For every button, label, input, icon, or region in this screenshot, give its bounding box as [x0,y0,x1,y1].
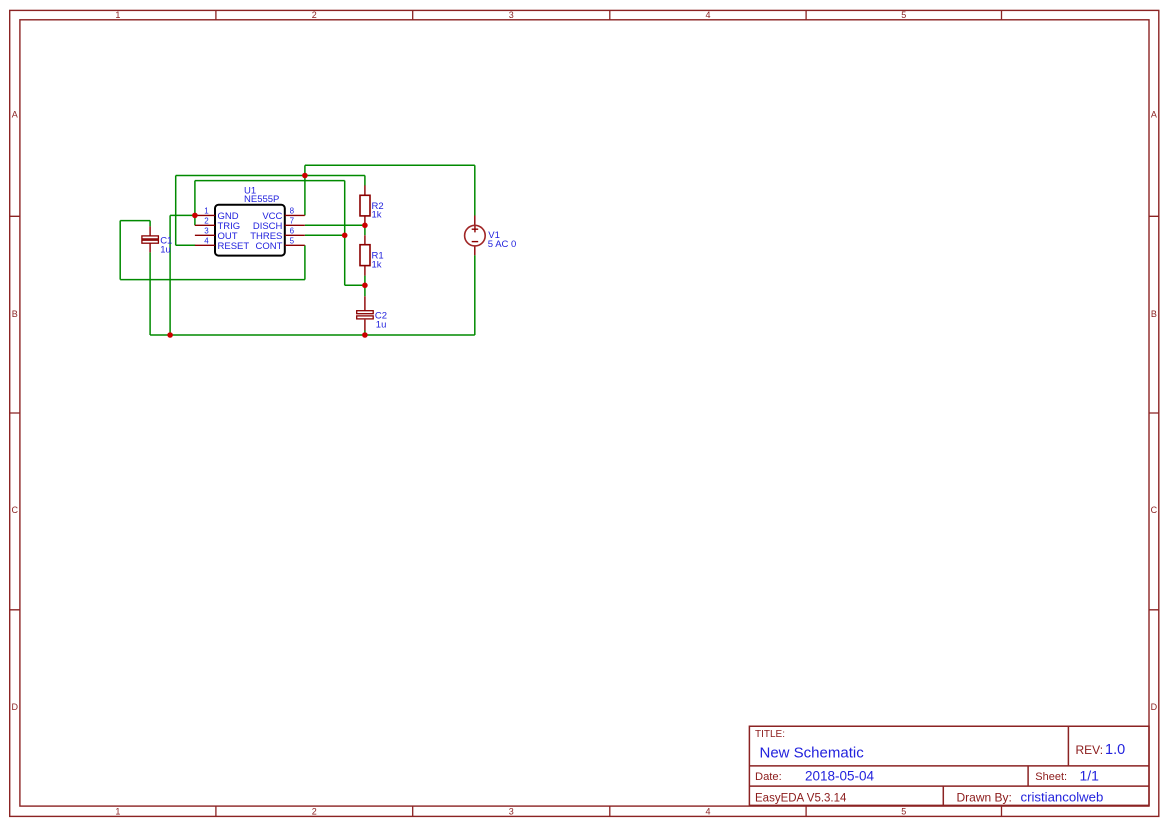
op-amp U1 NE555P body [215,185,285,255]
svg-text:1u: 1u [376,319,387,330]
svg-text:5: 5 [901,10,906,20]
svg-text:C: C [1151,505,1158,515]
wire net VCC top horizontal [305,164,475,166]
svg-text:1/1: 1/1 [1080,767,1100,783]
wire to R1 bottom junction [345,284,365,286]
svg-text:2: 2 [204,216,209,225]
wire C1 left vertical [119,221,121,280]
svg-text:D: D [1151,702,1158,712]
svg-text:4: 4 [705,10,710,20]
U1 pin 1 GND [195,207,239,222]
svg-text:B: B [12,309,18,319]
svg-text:NE555P: NE555P [244,194,279,205]
wire RESET vertical [175,176,177,246]
U1 pin 5 CONT [255,236,304,251]
U1 pin 2 TRIG [195,216,240,231]
svg-text:EasyEDA V5.3.14: EasyEDA V5.3.14 [755,793,847,805]
U1 pin 4 RESET [195,236,249,251]
svg-text:2018-05-04: 2018-05-04 [805,769,875,784]
svg-text:A: A [12,110,18,120]
U1 pin 7 DISCH [253,216,305,231]
wire THRES vertical x=344.7 [344,181,346,286]
svg-text:RESET: RESET [218,241,250,252]
svg-text:1k: 1k [372,210,382,221]
svg-text:6: 6 [290,226,295,235]
svg-text:1u: 1u [160,244,171,255]
svg-text:5: 5 [901,806,906,816]
svg-text:1k: 1k [372,259,382,270]
wire net VCC horizontal y=175.5 [176,175,365,177]
U1 pin 6 THRES [250,226,305,241]
wire net VCC vertical to pin 8 [304,165,306,215]
svg-text:A: A [1151,110,1157,120]
svg-text:5 AC 0: 5 AC 0 [488,239,517,250]
svg-text:Drawn By:: Drawn By: [957,790,1012,804]
wire THRES horizontal to pin 6 [305,234,345,236]
svg-text:C: C [12,505,19,515]
junction dot ground rail C2 [362,332,368,338]
svg-text:5: 5 [290,236,295,245]
junction dot THRES node [342,233,348,239]
wire C1 top horizontal [120,220,150,222]
svg-text:CONT: CONT [255,241,282,252]
svg-text:2: 2 [312,10,317,20]
wire R2 top stub [364,176,366,186]
svg-text:Sheet:: Sheet: [1035,771,1067,783]
resistor R1 [360,235,384,275]
svg-text:3: 3 [509,806,514,816]
wire CONT vertical [304,245,306,279]
wire V1 minus vertical [474,255,476,335]
svg-text:1: 1 [115,806,120,816]
svg-text:2: 2 [312,806,317,816]
svg-text:B: B [1151,309,1157,319]
svg-text:3: 3 [204,226,209,235]
capacitor C2 [357,296,387,330]
capacitor C1 [142,226,172,255]
svg-text:3: 3 [509,10,514,20]
junction dot R1/C2 node [362,283,368,289]
svg-text:D: D [12,702,19,712]
svg-text:8: 8 [290,207,295,216]
wire R2 bottom to R1 top [364,225,366,235]
title block [749,726,1149,805]
wire TRIG horizontal y=180.6 [195,180,345,182]
svg-text:4: 4 [705,806,710,816]
svg-text:New Schematic: New Schematic [760,744,865,761]
wire R1 bottom to C2 top [364,276,366,297]
svg-text:1: 1 [115,10,120,20]
wire C1 top stub [149,221,151,227]
svg-text:Date:: Date: [755,771,782,783]
wire V1 plus vertical [474,165,476,215]
svg-text:cristiancolweb: cristiancolweb [1021,790,1104,805]
junction dot GND/TRIG node [192,213,198,219]
wire DISCH horizontal to R2 bottom [305,224,365,226]
wire CONT horizontal y=279.6 [120,279,305,281]
junction dot ground rail left [167,332,173,338]
wire GND vertical to bottom rail [169,215,171,335]
svg-text:4: 4 [204,236,209,245]
svg-text:1: 1 [204,207,209,216]
wire C1 bottom vertical [149,252,151,335]
junction dot VCC node [302,173,308,179]
wire ground bottom rail [150,334,475,336]
resistor R2 [360,185,384,225]
wire RESET horizontal to pin 4 [176,244,196,246]
U1 pin 8 VCC [262,207,304,222]
wire TRIG vertical to pin 2 [194,181,196,226]
wire GND pin horizontal [170,214,195,216]
svg-text:TITLE:: TITLE: [755,729,785,740]
svg-text:1.0: 1.0 [1105,742,1125,758]
wire C2 bottom stub [364,331,366,336]
voltage source V1 [465,216,517,256]
U1 pin 3 OUT [195,226,238,241]
svg-text:7: 7 [290,216,295,225]
junction dot DISCH/R2 node [362,223,368,229]
svg-text:REV:: REV: [1076,743,1104,757]
